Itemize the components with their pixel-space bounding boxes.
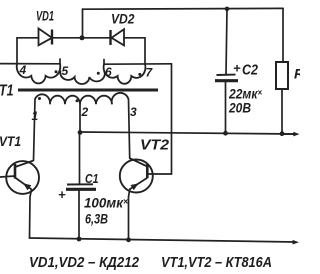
svg-text:+: + [58, 187, 66, 202]
svg-text:100мк×: 100мк× [84, 195, 129, 211]
svg-text:5: 5 [62, 64, 69, 78]
svg-text:3: 3 [130, 105, 137, 119]
svg-text:VT2: VT2 [140, 138, 169, 154]
svg-text:R: R [294, 66, 300, 82]
svg-text:2: 2 [81, 105, 89, 119]
svg-text:+: + [233, 61, 241, 76]
svg-text:VT1: VT1 [0, 133, 21, 149]
svg-text:6,3В: 6,3В [85, 211, 108, 227]
svg-text:C2: C2 [242, 63, 258, 79]
svg-text:VD1: VD1 [36, 9, 54, 24]
svg-text:4: 4 [19, 63, 27, 77]
svg-text:T1: T1 [0, 83, 14, 100]
svg-text:1: 1 [32, 109, 39, 123]
svg-text:20В: 20В [228, 100, 251, 116]
svg-text:VD2: VD2 [111, 11, 135, 27]
svg-text:С1: С1 [85, 171, 99, 186]
svg-text:VD1,VD2 – КД212: VD1,VD2 – КД212 [29, 255, 139, 271]
svg-text:6: 6 [105, 65, 112, 79]
svg-text:VT1,VT2 – КТ816А: VT1,VT2 – КТ816А [161, 255, 272, 271]
